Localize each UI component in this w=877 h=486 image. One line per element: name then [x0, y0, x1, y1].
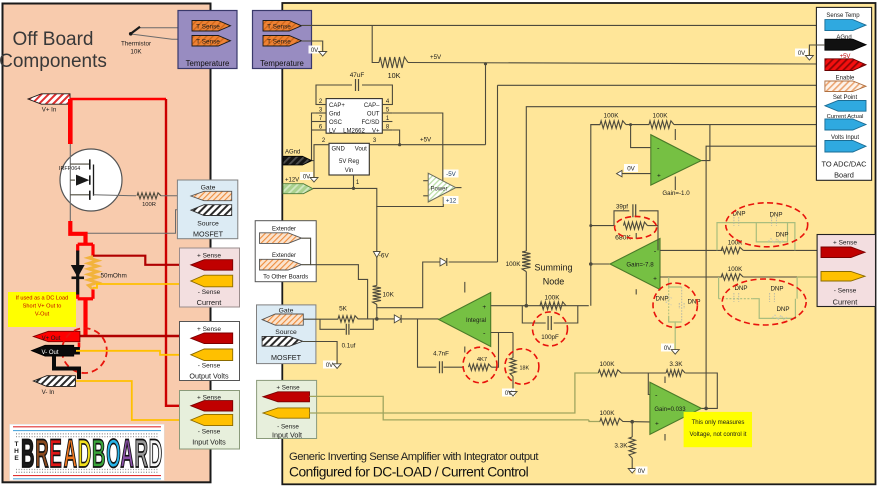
T Sense pin 2 (main): [263, 36, 302, 47]
svg-text:100K: 100K: [506, 261, 522, 268]
gate node junction: [375, 317, 379, 321]
svg-text:+: +: [653, 276, 657, 283]
dashed highlight circle (short point): [62, 328, 107, 373]
svg-text:100pF: 100pF: [541, 334, 559, 341]
capacitor C4 39pf: [633, 204, 636, 217]
svg-text:OSC: OSC: [329, 120, 343, 126]
svg-text:Power: Power: [430, 186, 447, 192]
svg-text:GND: GND: [332, 147, 346, 153]
svg-text:- Sense: - Sense: [834, 288, 857, 295]
TheBreadboard logo: [10, 424, 165, 480]
svg-text:Node: Node: [543, 277, 565, 287]
Q1 gate plate: [93, 165, 95, 196]
main schematic panel background: [282, 3, 875, 484]
svg-text:DNP: DNP: [770, 286, 783, 293]
svg-text:+ Sense: + Sense: [276, 384, 300, 391]
svg-text:V+: V+: [372, 128, 380, 134]
short-here red tick: [78, 343, 81, 348]
wire thermistor to T Sense 2: [131, 34, 192, 41]
svg-text:3.3K: 3.3K: [669, 361, 683, 368]
svg-text:Short V+ Out to: Short V+ Out to: [23, 304, 62, 310]
svg-text:Voltage, not control it: Voltage, not control it: [690, 431, 747, 438]
svg-text:+: +: [657, 172, 661, 179]
capacitor C1 47uF: [316, 85, 352, 105]
svg-text:0V: 0V: [664, 346, 671, 352]
- input: [631, 125, 651, 148]
connector box MOSFET (off-board): [177, 180, 237, 239]
feedback to output: [701, 125, 710, 161]
Q1 channel bar (dashed): [89, 159, 91, 200]
wire V- In sense (yellow): [76, 381, 191, 420]
wire +12V to power triangle: [313, 188, 443, 206]
- input wire with 100K to Current +Sense: [660, 249, 723, 251]
svg-text:100K: 100K: [600, 410, 616, 417]
op-amp U2 LM2662 charge pump: [326, 99, 382, 134]
T Sense pin 1 (main): [263, 21, 302, 32]
svg-text:T Sense: T Sense: [267, 23, 291, 30]
svg-text:Extender: Extender: [272, 253, 296, 259]
svg-text:+12: +12: [446, 198, 457, 205]
svg-text:10K: 10K: [130, 49, 142, 56]
svg-text:Current: Current: [833, 298, 858, 307]
svg-text:V+ In: V+ In: [42, 107, 57, 114]
Set Point pin (ADC): [825, 101, 866, 112]
svg-text:FC/SD: FC/SD: [362, 120, 381, 126]
connector box Input Volt (main): [257, 380, 317, 438]
net -6V flag: [376, 207, 378, 286]
connector V- Out: [32, 345, 74, 356]
Q1 source stub: [70, 194, 89, 196]
net Enable with diode D3: [498, 84, 825, 86]
svg-text:39pf: 39pf: [616, 204, 628, 211]
wire shunt +sense to Current box: [93, 256, 191, 265]
connector V+ Out: [33, 331, 80, 341]
svg-text:E: E: [14, 455, 19, 462]
Source pin (off-board): [191, 205, 232, 216]
svg-text:10K: 10K: [388, 71, 401, 80]
op-amp U4 Integral: [464, 282, 466, 293]
ground 0V (T sense): [309, 46, 321, 54]
net +5V rail: [408, 63, 825, 65]
svg-text:100K: 100K: [545, 295, 561, 302]
5V Reg pin 1 Vin: [353, 175, 355, 188]
svg-text:TO ADC/DAC: TO ADC/DAC: [821, 160, 867, 169]
Q1 body tick: [70, 179, 75, 181]
connector box Current (main): [817, 235, 875, 307]
svg-text:Gate: Gate: [201, 184, 216, 191]
wire to Current Actual: [710, 124, 825, 126]
svg-text:Generic Inverting Sense Amplif: Generic Inverting Sense Amplifier with I…: [289, 451, 539, 463]
wire pin8 V+ to +5V: [392, 130, 399, 145]
- Sense pin (Input Volt main): [263, 408, 310, 418]
svg-text:Input Volt: Input Volt: [272, 431, 302, 440]
dashed ellipse DNP upper: [726, 203, 808, 247]
T Sense pin 2 (off-board): [192, 36, 231, 47]
net Current Actual with 100K pair: [591, 125, 601, 126]
- Sense pin (Current off-board): [191, 275, 233, 287]
svg-text:+: +: [655, 420, 659, 427]
svg-text:- Sense: - Sense: [277, 423, 299, 430]
wire shunt -sense to Current box: [93, 284, 191, 288]
0V flag at + input: [622, 173, 651, 175]
svg-text:Board: Board: [834, 171, 854, 180]
transistor Q1 IRFP064 body circle: [60, 149, 122, 211]
svg-text:OUT: OUT: [367, 111, 380, 117]
wire V- Out to V- In (thick black): [54, 356, 79, 379]
svg-text:100K: 100K: [604, 113, 620, 120]
diode D2 (gate drive): [394, 315, 401, 323]
svg-text:- Sense: - Sense: [198, 289, 221, 296]
svg-text:Vout: Vout: [355, 147, 367, 153]
svg-text:Gain=-7.8: Gain=-7.8: [626, 262, 654, 269]
wire sense line to 10K pullup: [372, 25, 379, 62]
wire drain (thick red vertical): [68, 99, 73, 144]
op-amp PWR power flag: [423, 180, 429, 182]
- Sense pin (Output Volts): [191, 349, 233, 361]
svg-text:Gain=-1.0: Gain=-1.0: [662, 190, 690, 197]
svg-text:T Sense: T Sense: [196, 38, 220, 45]
svg-text:+5V: +5V: [420, 137, 432, 144]
+ Sense pin (Current off-board): [191, 260, 233, 271]
- Sense pin (Current main): [821, 272, 865, 282]
svg-text:CAP+: CAP+: [329, 103, 345, 109]
wire pin5 OUT to -5V: [392, 113, 442, 181]
svg-text:Temperature: Temperature: [260, 59, 304, 68]
svg-text:- Sense: - Sense: [198, 363, 221, 370]
AGnd pin (ADC): [825, 39, 866, 50]
svg-text:+: +: [482, 304, 486, 311]
Enable pin (ADC): [825, 81, 866, 92]
+ input wire to summing node: [491, 305, 589, 307]
svg-text:Thermistor: Thermistor: [121, 41, 151, 48]
shunt loop top (thick red): [78, 243, 93, 246]
op-amp U7 Gain=0.033: [664, 377, 666, 384]
svg-text:+5V: +5V: [430, 54, 442, 61]
svg-text:LV: LV: [329, 128, 336, 134]
svg-text:B: B: [21, 431, 34, 476]
svg-text:V-Out: V-Out: [35, 312, 50, 318]
svg-text:DNP: DNP: [776, 306, 789, 313]
svg-text:Output Volts: Output Volts: [189, 371, 229, 380]
wire MOSFET source to shunt (thick red): [70, 221, 85, 245]
- Sense pin (Input Volts): [191, 414, 233, 425]
LM2662 pin stubs and numbers: [316, 104, 326, 106]
svg-text:V+ Out: V+ Out: [42, 336, 61, 342]
+ input wire with 100K to Current -Sense: [660, 276, 723, 278]
+ Sense pin (Input Volts): [191, 401, 233, 411]
summing junction: [525, 304, 529, 308]
diode D1 (body diode, black): [76, 251, 79, 295]
svg-text:Gain=0.033: Gain=0.033: [654, 407, 686, 413]
Current Actual pin (ADC): [825, 119, 866, 130]
resistor 100R: [94, 195, 137, 196]
Q1 internal drain/source rail: [69, 144, 71, 233]
svg-text:Input Volts: Input Volts: [192, 438, 226, 447]
svg-text:5K: 5K: [339, 306, 348, 313]
svg-text:T Sense: T Sense: [267, 38, 291, 45]
wire V+ Out to Output Volts box: [74, 335, 191, 337]
svg-text:0.1uf: 0.1uf: [342, 343, 356, 350]
svg-text:To Other Boards: To Other Boards: [263, 274, 308, 281]
connector box Temperature (off-board): [178, 11, 237, 69]
- input feedback wire: [491, 332, 513, 334]
svg-text:O: O: [106, 431, 120, 476]
olive wire +Sense to bottom 100K: [310, 396, 589, 420]
svg-text:10K: 10K: [383, 292, 395, 299]
svg-text:R: R: [135, 431, 148, 476]
Sense Temp pin: [825, 20, 866, 31]
dashed circle 100pF: [533, 312, 568, 346]
svg-text:Integral: Integral: [466, 318, 486, 324]
resistor 5K: [338, 316, 358, 322]
svg-text:+12V: +12V: [285, 177, 299, 183]
svg-text:E: E: [49, 431, 61, 476]
svg-text:DNP: DNP: [769, 212, 782, 219]
svg-text:MOSFET: MOSFET: [193, 230, 224, 239]
5V Reg pin 2 GND: [314, 145, 329, 161]
olive wire -Sense to top 100K: [310, 373, 599, 413]
svg-text:CAP–: CAP–: [364, 103, 380, 109]
svg-text:Current: Current: [197, 298, 222, 307]
svg-text:+ Sense: + Sense: [833, 240, 857, 247]
net Volts Input vertical: [706, 146, 825, 408]
svg-text:3.3K: 3.3K: [614, 443, 628, 450]
svg-text:0V: 0V: [311, 48, 318, 54]
svg-text:DNP: DNP: [734, 285, 747, 292]
op-amp U6 Gain=-1.0: [674, 129, 676, 140]
svg-text:0V: 0V: [326, 363, 333, 369]
resistor 10K (gate pull): [373, 286, 381, 305]
svg-text:-6V: -6V: [379, 253, 390, 260]
resistor 100K (volts + input): [600, 418, 623, 424]
svg-text:A: A: [120, 431, 133, 476]
wire source to MOSFET box: [70, 210, 191, 234]
note: measurement only: [684, 412, 752, 447]
wire T Sense 2 to 0V: [302, 41, 323, 52]
resistor 100K (set point): [522, 251, 530, 272]
svg-text:Components: Components: [0, 51, 107, 72]
Source pin (main): [262, 336, 303, 346]
resistor 50mOhm shunt: [88, 257, 97, 290]
svg-text:V- Out: V- Out: [41, 350, 58, 356]
resistor 18K to ground: [512, 333, 514, 358]
resistor 3.3K to ground: [631, 422, 633, 437]
svg-text:100R: 100R: [142, 202, 156, 208]
svg-text:Gnd: Gnd: [329, 111, 340, 117]
resistor 680K: [624, 222, 648, 229]
svg-text:AGnd: AGnd: [285, 150, 300, 156]
svg-text:B: B: [92, 431, 105, 476]
svg-text:Temperature: Temperature: [186, 59, 230, 68]
+ Sense pin (Current main): [821, 247, 865, 258]
svg-text:Source: Source: [275, 329, 297, 336]
resistor 3.3K feedback: [648, 372, 666, 374]
Q1 drain stub: [70, 163, 89, 165]
svg-text:Vin: Vin: [345, 168, 354, 174]
svg-text:MOSFET: MOSFET: [271, 353, 302, 362]
thermistor probe symbol: [131, 27, 140, 34]
connector box Input Volts (off-board): [180, 391, 240, 450]
resistor 10K pull-up: [379, 57, 408, 68]
wire thermistor to T Sense 1: [131, 26, 192, 34]
wire T Sense 1 to Sense Temp (net SenseTemp): [302, 24, 825, 26]
svg-text:This only measures: This only measures: [692, 419, 745, 426]
svg-text:Sense Temp: Sense Temp: [826, 13, 860, 19]
Volts Input pin (ADC): [825, 141, 866, 153]
svg-text:DNP: DNP: [775, 232, 788, 239]
resistor 100K (volts - input): [598, 370, 621, 376]
resistor 100K (feedback upper): [540, 302, 566, 310]
capacitor C2 4.7nF: [418, 319, 437, 367]
T Sense pin 1 (off-board): [192, 21, 231, 32]
svg-text:18K: 18K: [520, 366, 530, 372]
connector box TO ADC/DAC Board: [816, 7, 871, 180]
wire shunt to V+ Out (thick red): [83, 299, 87, 336]
svg-text:A: A: [64, 431, 77, 476]
wire source to 0V: [303, 342, 338, 364]
DNP network lower: [718, 277, 720, 299]
vertical bus from gain -7.8 output: [590, 126, 592, 306]
wire pin3 Gnd / OSC / LV tie to AGnd: [312, 113, 317, 161]
DNP network upper: [717, 223, 752, 251]
svg-text:Off Board: Off Board: [13, 29, 94, 50]
svg-text:0V: 0V: [798, 51, 805, 57]
svg-text:LM2662: LM2662: [343, 128, 365, 134]
svg-text:Gate: Gate: [279, 308, 294, 315]
wire V+In net down right side: [166, 99, 191, 406]
off-board panel background: [3, 4, 211, 483]
feedback 680K / 39pf: [591, 225, 614, 227]
wire +5V rail to Vout: [485, 64, 487, 145]
svg-text:DNP: DNP: [687, 298, 700, 305]
Extender pin 2: [260, 259, 302, 270]
svg-text:T: T: [15, 441, 19, 448]
5V Reg pin 3 Vout (+5V): [369, 144, 485, 146]
svg-text:100K: 100K: [600, 361, 616, 368]
capacitor 0.1uf (across 5K): [320, 319, 345, 329]
dashed circle 4K7: [463, 347, 497, 383]
svg-text:Configured for DC-LOAD / Curre: Configured for DC-LOAD / Current Control: [289, 465, 529, 480]
svg-text:4.7nF: 4.7nF: [433, 350, 449, 357]
wire gate to 5K: [303, 318, 338, 320]
+ Sense pin (Input Volt main): [263, 392, 310, 402]
svg-text:4K7: 4K7: [477, 357, 487, 363]
svg-text:0V: 0V: [627, 166, 635, 173]
svg-text:Summing: Summing: [534, 263, 572, 273]
connector box MOSFET (main): [257, 305, 316, 364]
svg-text:V- In: V- In: [42, 389, 55, 396]
Q1 body-diode arrow: [76, 175, 89, 186]
svg-text:47uF: 47uF: [350, 72, 365, 79]
svg-text:+ Sense: + Sense: [197, 326, 221, 333]
dashed circle 18K: [505, 349, 539, 384]
svg-text:100K: 100K: [728, 239, 743, 246]
svg-text:-5V: -5V: [446, 171, 457, 178]
svg-text:Extender: Extender: [272, 226, 296, 232]
svg-text:R: R: [35, 431, 48, 476]
connector box Output Volts (off-board): [180, 322, 240, 381]
connector V- In: [33, 376, 75, 387]
DNP network at gain -7.8 + input: [668, 277, 670, 287]
svg-text:Source: Source: [197, 220, 219, 227]
resistor 4K7: [469, 364, 492, 370]
Gate pin (main): [262, 314, 303, 325]
ground 0V (ADC AGnd): [809, 45, 825, 56]
svg-text:H: H: [14, 448, 19, 455]
connector box Current (off-board): [180, 248, 240, 307]
svg-text:D: D: [78, 431, 91, 476]
svg-text:100K: 100K: [653, 113, 669, 120]
Extender pin 1: [260, 233, 302, 244]
ground 0V (AGnd): [312, 161, 314, 178]
net Set Point: [526, 107, 825, 251]
svg-text:D: D: [149, 431, 162, 476]
ground 0V (DNP network): [674, 329, 676, 349]
svg-text:T Sense: T Sense: [196, 23, 220, 30]
svg-text:DNP: DNP: [655, 295, 668, 302]
dashed ellipse DNP lower: [722, 279, 806, 325]
note: DC load shorting instruction: [8, 292, 76, 327]
op-amp U3 5V Reg: [329, 143, 369, 175]
wire V- Out sense (yellow): [76, 351, 191, 355]
wire extenders to gate net: [302, 238, 311, 265]
svg-text:If used as a DC Load: If used as a DC Load: [16, 296, 69, 302]
svg-text:50mOhm: 50mOhm: [101, 273, 127, 280]
connector box Temperature (main): [253, 11, 312, 69]
Gate pin (off-board): [191, 191, 232, 200]
svg-text:IRFP064: IRFP064: [59, 166, 80, 172]
+ Sense pin (Output Volts): [191, 333, 233, 344]
+5V pin (ADC): [825, 59, 866, 71]
svg-text:- Sense: - Sense: [198, 429, 221, 436]
wire V+ In to node (thick red): [70, 98, 166, 100]
op-amp U5 Gain=-7.8: [591, 263, 610, 265]
svg-text:100K: 100K: [728, 266, 743, 273]
dashed circle DNP pair: [653, 283, 697, 327]
connector box To Other Boards: [255, 221, 316, 282]
shunt loop bottom (thick red): [76, 295, 79, 299]
svg-text:5V Reg: 5V Reg: [339, 159, 359, 165]
svg-text:0V: 0V: [638, 469, 645, 475]
svg-text:+ Sense: + Sense: [197, 253, 221, 260]
dashed ellipse 680K: [615, 216, 657, 238]
capacitor C3 100pF: [522, 306, 545, 323]
connector V+ In: [28, 94, 70, 104]
svg-text:0V: 0V: [303, 175, 310, 181]
